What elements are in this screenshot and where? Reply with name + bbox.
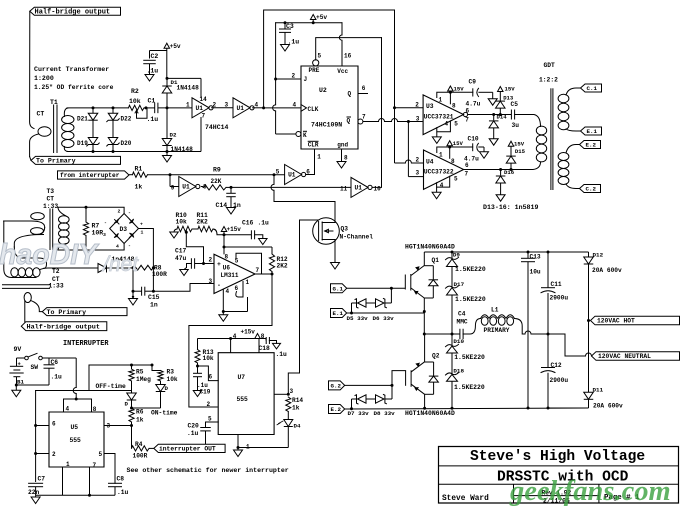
svg-text:-: - (104, 221, 107, 226)
svg-text:Vcc: Vcc (337, 68, 348, 75)
diode D21 (88, 113, 98, 120)
wire: Q3 drain net from interrupter line (273, 175, 275, 185)
wire: +5v J/K net (276, 22, 342, 24)
svg-text:-: - (128, 211, 131, 216)
svg-text:GDT: GDT (544, 62, 556, 69)
svg-text:1Meg: 1Meg (136, 376, 151, 383)
wire: E.1 to Q1 emitter (347, 312, 425, 314)
svg-text:2: 2 (415, 101, 419, 108)
svg-text:D: D (165, 385, 169, 392)
title block frame (439, 447, 679, 504)
resistor R6 (129, 408, 134, 422)
diode D20 (zener) (108, 138, 118, 145)
svg-text:UCC37321: UCC37321 (424, 113, 454, 120)
svg-text:/net: /net (101, 253, 139, 276)
ground under C7 (31, 497, 40, 504)
switch SW (17, 357, 25, 359)
ground at battery (15, 385, 17, 390)
svg-text:PRIMARY: PRIMARY (484, 327, 510, 334)
svg-text:D16: D16 (504, 169, 515, 176)
capacitor C9 (4.7u) (472, 88, 474, 96)
inverter U1c (pins 9-8) (179, 177, 196, 197)
svg-text:555: 555 (70, 437, 82, 444)
U5 pin1/pin7 leads (62, 467, 64, 495)
wire: C15 node to LM311 -input (153, 284, 214, 292)
power +5v (U2) (310, 15, 316, 20)
IC U7 555 box (218, 353, 274, 435)
svg-text:HGT1N40N60A4D: HGT1N40N60A4D (405, 244, 455, 251)
svg-text:D20: D20 (121, 140, 132, 147)
capacitor C7 (28, 482, 43, 484)
svg-text:100R: 100R (152, 271, 167, 278)
svg-text:1: 1 (141, 230, 144, 236)
wire: 9V drop to 555 Vcc with hop (75, 358, 77, 388)
svg-text:4.7u: 4.7u (466, 101, 481, 108)
svg-text:Q2: Q2 (432, 353, 440, 360)
svg-text:15V: 15V (505, 86, 516, 93)
zener D5 (352, 302, 357, 304)
svg-text:C14: C14 (216, 202, 228, 209)
svg-text:Q3: Q3 (341, 226, 349, 233)
svg-text:C9: C9 (469, 79, 477, 86)
svg-text:.1u: .1u (147, 68, 159, 75)
svg-text:Steve Ward: Steve Ward (442, 495, 489, 503)
diode D11 (584, 392, 594, 399)
svg-text:C6: C6 (51, 359, 59, 366)
svg-text:OFF-time: OFF-time (96, 383, 126, 390)
svg-text:C5: C5 (511, 101, 519, 108)
svg-text:U5: U5 (71, 424, 79, 431)
svg-text:G.2: G.2 (331, 383, 342, 390)
GDT secondary 1 coil (558, 94, 569, 102)
svg-text:100R: 100R (133, 453, 148, 460)
svg-text:D7 33v: D7 33v (348, 410, 370, 417)
resistor R1 (129, 174, 133, 176)
wire: +15v down to pin8 and R12 pull-up rail (223, 235, 225, 255)
flag: To Primary (bottom) (42, 308, 127, 316)
U7 +15v rail pins 4/8 (198, 338, 267, 340)
U4 ground pins 4/5 loop (437, 176, 450, 187)
svg-text:R14: R14 (292, 397, 303, 404)
GDT secondary 2 coil (558, 153, 569, 161)
svg-text:10: 10 (374, 186, 382, 193)
svg-text:R3: R3 (167, 369, 175, 376)
svg-text:D2: D2 (170, 132, 177, 139)
U2 Kbar pin 3 bubble (296, 132, 301, 137)
svg-text:-: - (217, 282, 221, 289)
svg-text:D4: D4 (294, 423, 301, 430)
U7 pin1 gnd (237, 435, 239, 448)
svg-text:1:33: 1:33 (49, 282, 64, 289)
svg-text:R4: R4 (135, 441, 143, 448)
GDT primary coil (536, 126, 546, 135)
GDT core (550, 88, 552, 190)
svg-text:L1: L1 (491, 307, 499, 314)
svg-text:U1: U1 (237, 105, 245, 112)
svg-text:.1u: .1u (117, 489, 129, 496)
capacitor C1 (154, 103, 156, 114)
svg-text:9: 9 (171, 185, 175, 192)
hop: J/K line over CLK wire (273, 105, 276, 111)
svg-text:geekfans.com: geekfans.com (509, 476, 671, 507)
diode D (1n4148) feed (98, 264, 107, 273)
svg-text:1.5KE220: 1.5KE220 (454, 354, 485, 361)
svg-text:D14: D14 (497, 113, 508, 120)
wire: T1 top bus (67, 107, 129, 109)
driver U3 UCC37321 triangle (423, 95, 463, 135)
svg-text:C2: C2 (151, 53, 159, 60)
svg-text:74HC109N: 74HC109N (311, 121, 342, 128)
svg-text:B1: B1 (17, 379, 24, 386)
TVS D18 (446, 373, 459, 375)
flag G.1 (331, 284, 347, 293)
svg-text:7: 7 (93, 462, 97, 469)
svg-text:2900u: 2900u (550, 377, 569, 384)
svg-text:120VAC NEUTRAL: 120VAC NEUTRAL (598, 353, 651, 360)
svg-text:2K2: 2K2 (277, 263, 288, 270)
capacitor C13 (527, 252, 529, 258)
svg-text:.1u: .1u (147, 116, 159, 123)
wire: R8/C15 node (132, 268, 134, 292)
svg-text:D22: D22 (121, 116, 132, 123)
capacitor C2 (143, 59, 156, 61)
svg-text:E.1: E.1 (587, 128, 598, 135)
svg-text:SW: SW (31, 364, 39, 371)
svg-text:C.2: C.2 (586, 186, 597, 193)
wire: U4 output (464, 169, 533, 171)
bridge rectifier D3 (110, 214, 139, 244)
Q3 channel bar (321, 222, 323, 241)
svg-text:5: 5 (208, 416, 212, 423)
svg-text:C17: C17 (175, 248, 187, 255)
wire: C5 to GDT primary top (515, 115, 541, 127)
svg-text:11: 11 (340, 186, 348, 193)
wire: +bus top rail (424, 251, 588, 253)
flag E.2 (bridge) (329, 405, 345, 414)
svg-text:N-Channel: N-Channel (340, 233, 374, 240)
U4 power pins to +15V rail (437, 147, 473, 153)
svg-text:4.7u: 4.7u (464, 156, 479, 163)
flag: Half-bridge output (top) (30, 7, 121, 15)
wire: pins 2/6 column (35, 391, 37, 482)
svg-text:U3: U3 (426, 103, 434, 110)
transformer T3 core (49, 209, 51, 251)
svg-text:U1: U1 (355, 185, 363, 192)
svg-text:6: 6 (466, 107, 470, 114)
wire: G.2 to Q2 gate (345, 384, 392, 386)
svg-text:.1u: .1u (276, 351, 288, 358)
svg-text:1:2:2: 1:2:2 (539, 77, 558, 84)
flag C.2 (580, 185, 601, 193)
diode D (off-time) (131, 381, 133, 393)
svg-text:Q1: Q1 (432, 257, 440, 264)
svg-text:R6: R6 (136, 409, 144, 416)
wire: D3 output (139, 229, 154, 268)
resistor R8 (133, 265, 153, 270)
svg-text:HGT1N40N60A4D: HGT1N40N60A4D (405, 410, 455, 417)
svg-text:74HC14: 74HC14 (205, 124, 229, 131)
svg-text:ON-time: ON-time (151, 410, 178, 417)
svg-text:1:200: 1:200 (34, 75, 54, 82)
wire: battery neg rail (16, 384, 49, 386)
diode D14 clamp to ground (493, 115, 495, 121)
svg-text:5: 5 (276, 169, 280, 176)
svg-text:15V: 15V (514, 141, 525, 148)
ground under C3 (281, 45, 290, 52)
Q3 source ground (331, 263, 340, 270)
wire: R1 to inverter inputs (148, 174, 285, 176)
wire: U1 power pin 14 (200, 78, 202, 97)
svg-text:14: 14 (200, 96, 208, 103)
U7 pin3 output (274, 393, 288, 395)
svg-text:1n: 1n (150, 302, 158, 309)
T2 primary spiral (pass-through turns) (4, 221, 36, 278)
svg-text:+5v: +5v (170, 43, 181, 50)
svg-text:gnd: gnd (337, 141, 348, 148)
svg-text:C15: C15 (148, 294, 160, 301)
inverter U1a (pins 1-2) (192, 98, 209, 118)
svg-text:See other schematic for newer: See other schematic for newer interrupte… (127, 467, 289, 474)
svg-text:U1: U1 (182, 184, 190, 191)
svg-text:2900u: 2900u (550, 295, 569, 302)
svg-text:C3: C3 (286, 23, 294, 30)
svg-text:555: 555 (237, 396, 249, 403)
flag E.1 (gdt) (581, 127, 602, 135)
Q3 drain link (322, 222, 335, 224)
capacitor C4 MMC (459, 329, 461, 340)
ground at C15 (132, 291, 134, 298)
U6 pin8 lead (223, 247, 225, 254)
svg-text:D10: D10 (453, 338, 464, 345)
svg-text:4: 4 (233, 333, 237, 340)
wire: R11 to +15v node (213, 229, 224, 235)
svg-text:5: 5 (235, 258, 239, 265)
U6 output node and R12 pull-up (271, 273, 274, 276)
Q3 body arrow (325, 229, 334, 233)
svg-text:4: 4 (116, 244, 119, 250)
svg-text:.1u: .1u (51, 374, 63, 381)
capacitor C19 (197, 366, 199, 373)
U6 pin4 ground lead (222, 289, 224, 312)
svg-text:C18: C18 (259, 345, 271, 352)
wire: secondary1 to C.1 flag (566, 88, 581, 95)
MOSFET Q3 body circle (313, 218, 340, 245)
Q3 gate bar (318, 221, 320, 241)
svg-text:4: 4 (255, 101, 259, 108)
svg-text:1: 1 (246, 279, 250, 286)
resistor R13 (197, 339, 199, 350)
svg-text:8: 8 (451, 158, 455, 165)
svg-text:MMC: MMC (457, 318, 468, 325)
flag G.2 (329, 381, 345, 390)
wire: R6 to U5 pin3 (131, 422, 133, 426)
wire: signal node down to D2 (166, 108, 168, 139)
T2 pickup loop to flags (24, 293, 31, 303)
power +5v (at C2/D1) (164, 43, 170, 48)
svg-text:3: 3 (290, 388, 294, 395)
svg-text:K: K (303, 132, 307, 139)
svg-text:CT: CT (37, 111, 45, 118)
flag C.1 (581, 84, 602, 92)
svg-text:1: 1 (439, 151, 443, 158)
flag: 120VAC NEUTRAL (592, 352, 680, 361)
svg-text:PRE: PRE (309, 67, 320, 74)
flag: 120VAC HOT (591, 316, 680, 325)
svg-text:D13-16: 1n5819: D13-16: 1n5819 (483, 204, 538, 211)
wire: zener chain to gate (390, 288, 392, 303)
svg-text:D18: D18 (453, 367, 464, 374)
wire: Vcc pin16 riser (341, 23, 343, 35)
ground after C9 (492, 92, 494, 98)
svg-text:3: 3 (416, 115, 420, 122)
wire: U1d out up to CLR pin1 (306, 149, 315, 175)
hop: midrail over C13 column (525, 331, 531, 334)
svg-text:CT: CT (47, 196, 55, 203)
R2 trimmer return loop (137, 109, 148, 119)
svg-text:C4: C4 (458, 310, 466, 317)
diode D22 (zener) (108, 113, 118, 120)
svg-text:D: D (125, 401, 129, 408)
IGBT Q2 (424, 334, 426, 362)
wire: R13 to pin6 threshold (198, 366, 219, 381)
flag: Half-bridge output (bottom) (21, 322, 107, 331)
svg-text:CLR: CLR (308, 141, 319, 148)
capacitor C3 (284, 23, 286, 29)
svg-text:T1: T1 (50, 99, 58, 106)
wire: U1a out to U1b (211, 107, 233, 109)
comparator U6 LM311 (214, 254, 255, 293)
ground at R10 (170, 232, 179, 238)
svg-text:47u: 47u (175, 255, 187, 262)
svg-text:120VAC HOT: 120VAC HOT (597, 318, 635, 325)
svg-text:D17: D17 (454, 281, 465, 288)
wire: pin3 node down to R4 (131, 426, 133, 449)
svg-text:7: 7 (465, 116, 469, 123)
resistor R10 (174, 229, 177, 232)
svg-text:2: 2 (416, 156, 420, 163)
svg-text:1k: 1k (292, 405, 300, 412)
svg-text:1:33: 1:33 (43, 203, 58, 210)
power +15V (U3) (448, 86, 454, 91)
wire: R5/R3 top rail (89, 364, 152, 366)
svg-text:D15: D15 (515, 148, 526, 155)
svg-text:9V: 9V (14, 346, 22, 353)
wire: +5v rail down to D1 and U1 power (166, 51, 168, 79)
ground under D2 (166, 152, 168, 156)
wire: CLK node up and over to U3 (net A) (264, 10, 395, 108)
svg-text:D21: D21 (77, 116, 88, 123)
transformer T1 primary loop (38, 127, 51, 137)
svg-text:C12: C12 (551, 362, 562, 369)
wire: U5 pins 4/8 bracket (64, 399, 92, 412)
svg-text:3: 3 (416, 169, 420, 176)
resistor R14 (286, 397, 291, 412)
svg-text:1: 1 (317, 154, 321, 161)
capacitor C15 (141, 287, 143, 296)
svg-text:2: 2 (292, 73, 296, 80)
svg-text:4: 4 (440, 182, 444, 189)
svg-text:+5v: +5v (316, 14, 327, 21)
svg-text:10R: 10R (92, 230, 104, 237)
wire: U1b out to CLK node (252, 107, 264, 109)
wire: U1 gnd pin 7 (200, 117, 202, 152)
svg-text:UCC37322: UCC37322 (424, 168, 454, 175)
wire: T1 primary to To-Primary flag (30, 157, 31, 161)
svg-text:6: 6 (235, 285, 239, 292)
diode D1 (162, 86, 172, 93)
svg-text:C10: C10 (468, 135, 479, 142)
wire: Qbar to drivers (363, 121, 379, 123)
capacitor C11 (2900u) (547, 252, 549, 288)
capacitor C5 (510, 110, 512, 120)
svg-text:15V: 15V (453, 140, 464, 147)
svg-text:1N4148: 1N4148 (171, 146, 194, 153)
battery B1 (16, 358, 18, 366)
zener D7 (352, 398, 357, 400)
wire: pin2 J input (276, 78, 301, 80)
flag: To Primary (top) (31, 156, 121, 164)
junction dots on T1 buses (92, 106, 95, 109)
transformer T2 secondary coil (11, 268, 18, 277)
svg-text:D8 33v: D8 33v (374, 410, 396, 417)
svg-text:-: - (128, 244, 131, 249)
diode D19 (zener) (88, 138, 98, 145)
svg-text:8: 8 (344, 155, 348, 162)
wire: pin5 to C8 (104, 454, 115, 484)
svg-text:U1: U1 (288, 172, 296, 179)
TVS D17 (446, 286, 459, 288)
svg-text:U1: U1 (196, 105, 204, 112)
resistor R7 (85, 207, 87, 222)
wire: comparator output to Q3 gate (300, 219, 319, 221)
Q1 freewheel diode (424, 265, 433, 267)
svg-text:D11: D11 (593, 387, 604, 394)
wire: +5v to C2 (150, 50, 167, 52)
svg-text:6: 6 (209, 374, 213, 381)
wire: T3 secondary bottom bus (58, 244, 124, 251)
capacitor C8 (114, 487, 116, 496)
svg-text:Q: Q (347, 118, 351, 125)
wire: branch down to U1c input (169, 175, 171, 187)
svg-text:1.25" OD ferrite core: 1.25" OD ferrite core (34, 84, 114, 91)
svg-text:+: + (217, 261, 221, 268)
flag E.1 (bridge) (331, 309, 347, 318)
resistor R4 (132, 446, 150, 451)
svg-text:6: 6 (465, 162, 469, 169)
svg-text:1.5KE220: 1.5KE220 (455, 266, 486, 273)
svg-text:1k: 1k (135, 184, 143, 191)
capacitor C16 (250, 230, 252, 239)
svg-text:C1: C1 (148, 98, 156, 105)
svg-text:haoDIY: haoDIY (0, 239, 100, 271)
inverter U1d (pins 5-6) (285, 165, 302, 185)
svg-text:D19: D19 (77, 140, 88, 147)
svg-text:8: 8 (261, 333, 265, 340)
TVS D10 (451, 334, 453, 346)
svg-text:2: 2 (52, 451, 56, 458)
ground under C14 (227, 208, 236, 215)
svg-text:+15v: +15v (241, 329, 256, 336)
svg-text:E.2: E.2 (331, 406, 342, 413)
inductor L1 primary (463, 319, 480, 335)
svg-text:2: 2 (209, 257, 213, 264)
svg-text:R7: R7 (92, 223, 100, 230)
divider tap to comparator +input (185, 231, 188, 234)
svg-text:5: 5 (318, 53, 322, 60)
diode D13 clamp to +15V (499, 108, 501, 114)
svg-text:5: 5 (454, 120, 458, 127)
power +15V (U4) (447, 141, 453, 146)
